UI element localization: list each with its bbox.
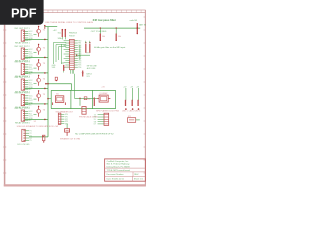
svg-text:SP1: SP1 <box>65 117 68 119</box>
transistor Q4 <box>37 78 41 82</box>
resistor R8 speaker <box>65 129 70 132</box>
junction channel 2 <box>44 57 46 59</box>
crystal Q1 pins <box>97 98 99 100</box>
svg-text:PD3: PD3 <box>78 60 81 62</box>
wire channel 6 output <box>25 118 48 120</box>
wire channel 2 output <box>25 56 48 58</box>
svg-text:100n: 100n <box>65 67 69 69</box>
svg-text:A 4db gain filter on the MF in: A 4db gain filter on the MF input <box>94 46 125 49</box>
connector SV4 pin wires <box>25 79 29 81</box>
frame right border with ticks <box>144 10 146 186</box>
svg-text:24F low pass filter: 24F low pass filter <box>93 18 116 22</box>
svg-text:PB1: PB1 <box>78 43 81 45</box>
svg-text:PD6: PD6 <box>78 67 81 69</box>
wire MF bus <box>84 27 140 29</box>
power +5V arrow node <box>44 25 46 29</box>
svg-text:Sheet: 1/1: Sheet: 1/1 <box>134 178 144 181</box>
frame bottom border <box>4 184 146 186</box>
resistor R11 <box>99 34 101 40</box>
svg-text:JP2: JP2 <box>128 116 131 118</box>
svg-text:DT: DT <box>94 124 96 126</box>
connector SV8 pin wires <box>98 114 104 116</box>
wire channel 3 output <box>25 72 48 74</box>
svg-text:PD4: PD4 <box>78 63 81 65</box>
svg-text:C5: C5 <box>88 99 90 101</box>
transistor Q3 emitter <box>38 67 40 71</box>
LED D4 <box>137 100 139 106</box>
wire LPF drop 2 <box>115 28 117 33</box>
LED D3 <box>131 100 133 106</box>
connector SV2 <box>21 48 24 59</box>
title block doc divider <box>132 172 134 177</box>
junction channel 4 <box>44 88 46 90</box>
title block date divider <box>132 176 134 181</box>
svg-text:LED 3: LED 3 <box>135 111 141 113</box>
svg-text:TP1: TP1 <box>86 52 89 54</box>
svg-text:X2: X2 <box>34 121 36 123</box>
transistor Q2 emitter <box>38 51 40 55</box>
svg-text:Date: 8/12/11 20:11: Date: 8/12/11 20:11 <box>107 178 125 181</box>
title block divider 2 <box>105 171 146 173</box>
connector SV1 pin wires <box>25 30 29 32</box>
svg-text:+5V: +5V <box>53 30 57 32</box>
wire harness 1 <box>53 42 55 64</box>
svg-text:radio MF: radio MF <box>130 19 138 22</box>
svg-text:REV:: REV: <box>134 174 139 176</box>
svg-text:10k: 10k <box>118 36 121 38</box>
title block divider 1 <box>105 167 146 169</box>
connector SV3 <box>21 64 24 75</box>
connector X2 <box>22 129 25 141</box>
wire base of Q5 <box>34 98 37 100</box>
wire base of Q6 <box>34 114 37 116</box>
svg-text:TITLE: MP3 sound board: TITLE: MP3 sound board <box>107 169 131 172</box>
connector SV6 <box>21 110 24 121</box>
resonator B1 <box>55 96 63 103</box>
connector SV7 <box>58 113 61 124</box>
transistor Q5 emitter <box>38 98 40 102</box>
frame top double border with ticks <box>44 9 146 11</box>
resistor R2 pull-up <box>64 30 66 37</box>
transistor Q2 <box>37 47 41 51</box>
svg-text:USE LED SPEAKER TO INDICATE SC: USE LED SPEAKER TO INDICATE SCK LOW <box>17 125 58 128</box>
wire channel 4 output <box>25 87 48 89</box>
svg-text:OUT TO MF BUS: OUT TO MF BUS <box>91 31 107 33</box>
resistor R4 <box>89 44 91 53</box>
transistor Q5 <box>37 94 41 98</box>
svg-text:MP3 PLAYER DOCK PINS: MP3 PLAYER DOCK PINS <box>96 109 119 112</box>
transistor Q6 emitter <box>38 113 40 117</box>
junction channel 3 <box>44 72 46 74</box>
wire LED3 <box>138 88 140 100</box>
resistor R3 <box>85 44 87 53</box>
wire loop top rail <box>51 89 115 91</box>
svg-text:PB0: PB0 <box>78 41 81 43</box>
junction channel 1 <box>44 39 46 41</box>
connector SV8 dock <box>104 113 109 125</box>
wire harness 2 <box>55 45 57 63</box>
LED D2 <box>125 100 127 106</box>
LED D2 junction <box>125 108 127 110</box>
transistor Q4 collector <box>38 75 40 78</box>
connector SV4 <box>21 79 24 90</box>
resistor R12 <box>115 34 117 40</box>
wire mid horizontal <box>46 83 72 85</box>
wire stub to left loop <box>48 98 51 100</box>
resistor R9 <box>128 118 136 123</box>
wire to phone jack <box>79 98 81 105</box>
IC JP1 right pin wires <box>74 40 78 42</box>
wire right loop sides <box>92 90 94 108</box>
svg-text:RELAY DRIVE 6: RELAY DRIVE 6 <box>15 121 31 124</box>
wire loop riser <box>71 84 73 91</box>
junction channel 6 <box>44 119 46 121</box>
transistor Q5 collector <box>38 91 40 94</box>
svg-text:LED 1: LED 1 <box>122 111 128 113</box>
transistor Q3 <box>37 63 41 67</box>
connector SV7 pin wires <box>61 114 65 116</box>
transistor Q1 <box>37 29 41 33</box>
svg-text:SP0: SP0 <box>65 114 68 116</box>
transistor Q3 collector <box>38 60 40 63</box>
svg-text:Document Number:: Document Number: <box>107 173 125 176</box>
wire base of Q2 <box>34 52 37 54</box>
connector X2 pin wires <box>25 130 29 132</box>
connector SV1 <box>21 30 24 41</box>
wire to speaker resistor <box>66 124 68 129</box>
resistor R5 inline <box>84 97 87 100</box>
crystal Q1 <box>99 95 108 102</box>
frame left border with ticks <box>4 25 6 187</box>
title block outline <box>105 159 146 181</box>
IC JP1 main header <box>70 39 75 69</box>
wire harness 4 <box>60 44 62 64</box>
transistor Q2 collector <box>38 44 40 47</box>
svg-text:SCL: SCL <box>58 32 62 34</box>
capacitor C5 <box>93 98 95 105</box>
svg-text:SP3: SP3 <box>65 121 68 123</box>
IC JP1 bottom pin wires <box>70 70 72 74</box>
svg-text:SP4: SP4 <box>65 123 68 125</box>
connector SV5 pin wires <box>25 95 29 97</box>
svg-text:PB5/SCK: PB5/SCK <box>69 32 78 34</box>
svg-text:CadSoft Computer, Inc.: CadSoft Computer, Inc. <box>107 160 130 163</box>
svg-text:10k: 10k <box>102 36 105 38</box>
wire left loop sides <box>50 90 52 108</box>
wire IC to crystal <box>73 74 75 99</box>
connector SV2 pin wires <box>25 48 29 50</box>
transistor Q6 collector <box>38 106 40 109</box>
svg-text:RELAY DRIVE 1: RELAY DRIVE 1 <box>15 41 31 44</box>
connector SV3 pin wires <box>25 64 29 66</box>
wire main vertical bus <box>47 27 49 137</box>
wire under R3 R4 <box>76 54 90 56</box>
resistor R1 pull-up <box>61 30 63 37</box>
svg-text:PDF: PDF <box>11 6 37 21</box>
svg-text:PB6/XT: PB6/XT <box>69 35 76 37</box>
svg-text:PD5: PD5 <box>78 65 81 67</box>
svg-text:SP2: SP2 <box>65 119 68 121</box>
resistor R8 pin <box>66 132 68 136</box>
svg-text:NC COMPUTER LINK WITH PIN 9 OF: NC COMPUTER LINK WITH PIN 9 OF X2 <box>75 133 114 135</box>
wire channel 1 output <box>25 38 48 40</box>
svg-text:3V3: 3V3 <box>86 76 89 78</box>
wire base of Q1 <box>34 34 37 36</box>
net label component above loop <box>55 77 57 80</box>
svg-text:Q1 4MHZ: Q1 4MHZ <box>99 93 108 95</box>
wire base of Q3 <box>34 67 37 69</box>
title block divider 3 <box>105 175 146 177</box>
transistor Q1 collector <box>38 26 40 29</box>
wire top rail <box>45 26 58 28</box>
transistor Q4 emitter <box>38 82 40 86</box>
capacitor C1 <box>63 65 65 71</box>
LED D4 junction <box>138 108 140 110</box>
transistor Q6 <box>37 109 41 113</box>
wire LPF drop 1 <box>99 28 101 33</box>
wire right of R9 <box>136 119 140 121</box>
wire channel 5 output <box>25 103 48 105</box>
svg-text:P5: P5 <box>30 140 32 142</box>
wire harness 3 <box>57 47 59 60</box>
PDF badge <box>0 0 44 25</box>
IC JP1 left pin wires <box>64 40 70 42</box>
wire X2 to bus <box>29 136 48 138</box>
diode D1 <box>82 71 84 77</box>
svg-text:SPEAKER OUT 8 OHM: SPEAKER OUT 8 OHM <box>60 137 80 140</box>
transistor Q1 emitter <box>38 33 40 37</box>
svg-text:AUX LINE: AUX LINE <box>87 67 96 70</box>
wire base of Q4 <box>34 83 37 85</box>
svg-text:USE THESE SERIAL LINES TO CONT: USE THESE SERIAL LINES TO CONTROL EACH <box>45 21 93 24</box>
transistor Q7 <box>43 135 45 140</box>
resonator B1 pins <box>52 102 54 105</box>
svg-text:ANT IN: ANT IN <box>139 24 146 27</box>
junction channel 5 <box>44 103 46 105</box>
LED D3 junction <box>132 108 134 110</box>
wire LED1 <box>125 88 127 100</box>
connector SV5 <box>21 95 24 106</box>
connector SV6 pin wires <box>25 110 29 112</box>
wire LED2 <box>132 88 134 100</box>
phone jack X1 <box>82 107 86 115</box>
resistor R13 antenna <box>136 23 138 33</box>
wire loop bottom rail <box>51 108 115 110</box>
svg-text:SCK LOW LED: SCK LOW LED <box>17 144 30 146</box>
